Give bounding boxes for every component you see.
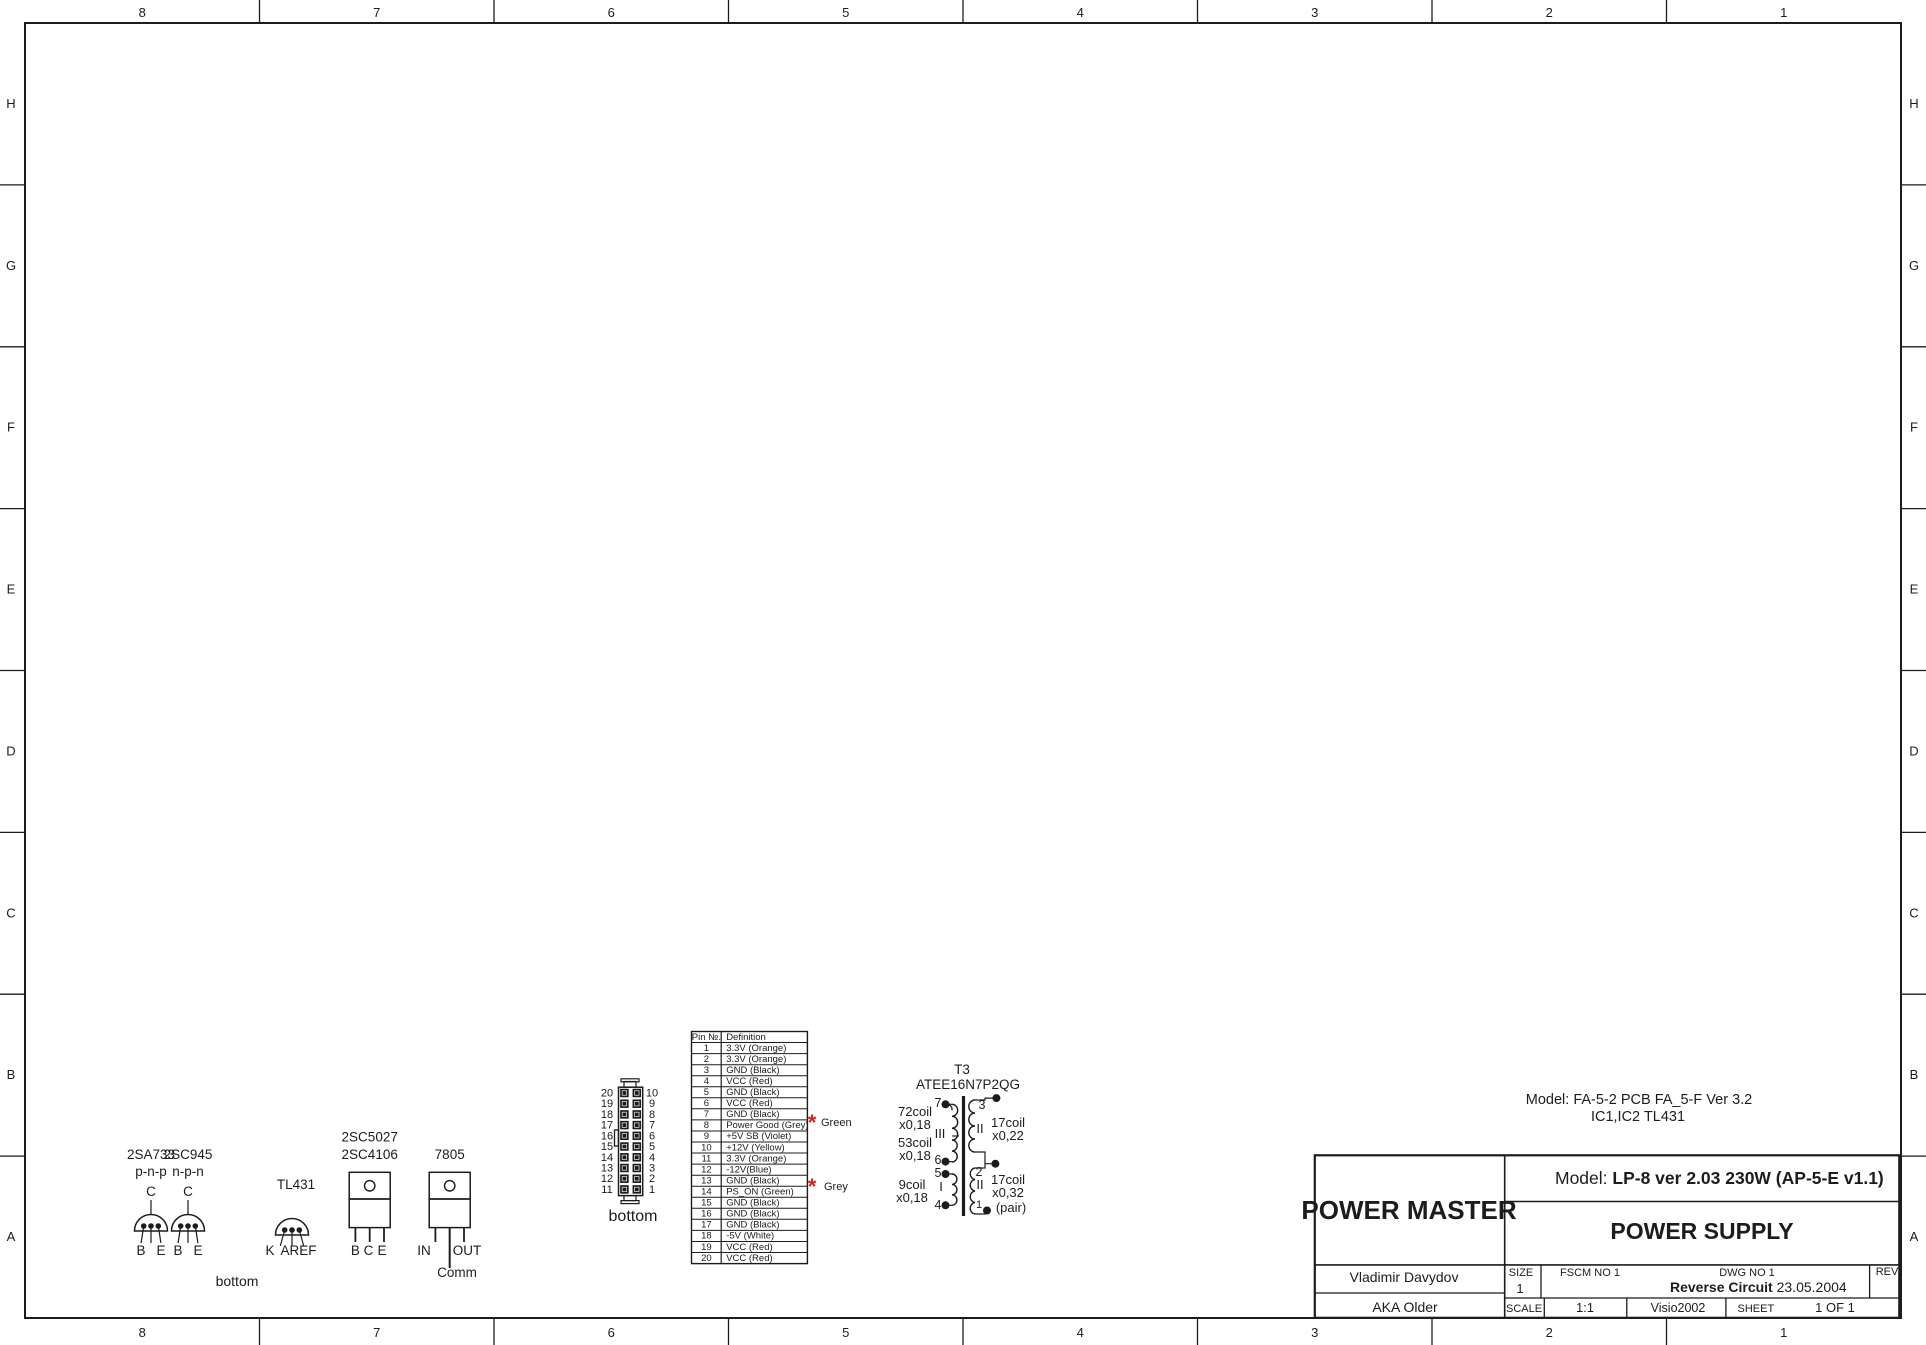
svg-text:SIZE: SIZE xyxy=(1509,1267,1533,1279)
svg-text:1: 1 xyxy=(1780,5,1787,20)
svg-text:6: 6 xyxy=(608,1325,615,1340)
svg-text:2SC945: 2SC945 xyxy=(164,1147,213,1162)
svg-text:REF: REF xyxy=(290,1243,317,1258)
svg-text:DWG NO 1: DWG NO 1 xyxy=(1719,1267,1775,1279)
svg-text:FSCM NO 1: FSCM NO 1 xyxy=(1560,1267,1620,1279)
svg-text:GND (Black): GND (Black) xyxy=(726,1176,779,1187)
svg-text:6: 6 xyxy=(704,1098,709,1109)
svg-text:Visio2002: Visio2002 xyxy=(1651,1301,1706,1315)
svg-text:IC1,IC2 TL431: IC1,IC2 TL431 xyxy=(1591,1109,1685,1125)
svg-text:1: 1 xyxy=(1780,1325,1787,1340)
svg-text:19: 19 xyxy=(701,1242,712,1253)
svg-text:B: B xyxy=(1910,1067,1919,1082)
svg-text:-12V(Blue): -12V(Blue) xyxy=(726,1164,771,1175)
svg-text:7805: 7805 xyxy=(435,1147,465,1162)
svg-text:C: C xyxy=(1909,905,1918,920)
svg-text:POWER MASTER: POWER MASTER xyxy=(1301,1195,1516,1225)
svg-text:GND (Black): GND (Black) xyxy=(726,1198,779,1209)
svg-text:Reverse Circuit 23.05.2004: Reverse Circuit 23.05.2004 xyxy=(1670,1279,1847,1295)
svg-text:1: 1 xyxy=(649,1184,655,1196)
svg-text:+12V (Yellow): +12V (Yellow) xyxy=(726,1142,785,1153)
svg-text:p-n-p: p-n-p xyxy=(135,1164,167,1179)
svg-text:3.3V (Orange): 3.3V (Orange) xyxy=(726,1054,786,1065)
svg-text:*: * xyxy=(808,1110,817,1135)
svg-text:13: 13 xyxy=(701,1176,712,1187)
svg-text:12: 12 xyxy=(701,1164,712,1175)
svg-text:C: C xyxy=(364,1243,374,1258)
svg-text:Vladimir Davydov: Vladimir Davydov xyxy=(1350,1269,1459,1285)
svg-text:E: E xyxy=(1910,582,1919,597)
svg-text:11: 11 xyxy=(601,1184,612,1196)
svg-text:SHEET: SHEET xyxy=(1738,1303,1775,1315)
svg-text:D: D xyxy=(6,743,15,758)
svg-text:8: 8 xyxy=(704,1120,709,1131)
svg-text:1: 1 xyxy=(704,1043,709,1054)
svg-text:D: D xyxy=(1909,743,1918,758)
svg-text:H: H xyxy=(1909,96,1918,111)
svg-text:VCC (Red): VCC (Red) xyxy=(726,1098,772,1109)
svg-text:3.3V (Orange): 3.3V (Orange) xyxy=(726,1153,786,1164)
svg-text:2: 2 xyxy=(1546,1325,1553,1340)
svg-text:2: 2 xyxy=(1546,5,1553,20)
svg-text:4: 4 xyxy=(1077,5,1084,20)
svg-text:Green: Green xyxy=(821,1117,852,1129)
svg-text:Definition: Definition xyxy=(726,1032,766,1043)
svg-text:9: 9 xyxy=(704,1131,709,1142)
svg-text:2: 2 xyxy=(704,1054,709,1065)
svg-text:3.3V (Orange): 3.3V (Orange) xyxy=(726,1043,786,1054)
svg-text:B: B xyxy=(136,1243,145,1258)
svg-text:VCC (Red): VCC (Red) xyxy=(726,1242,772,1253)
svg-text:C: C xyxy=(146,1184,156,1199)
svg-text:AKA Older: AKA Older xyxy=(1372,1299,1438,1315)
svg-text:4: 4 xyxy=(704,1076,709,1087)
svg-text:17: 17 xyxy=(701,1220,712,1231)
svg-text:14: 14 xyxy=(701,1187,712,1198)
svg-text:B: B xyxy=(351,1243,360,1258)
svg-text:x0,22: x0,22 xyxy=(992,1128,1024,1143)
svg-text:*: * xyxy=(808,1174,817,1199)
svg-text:E: E xyxy=(377,1243,386,1258)
svg-text:2SC5027: 2SC5027 xyxy=(342,1130,398,1145)
svg-text:11: 11 xyxy=(701,1153,711,1164)
svg-text:3: 3 xyxy=(704,1065,709,1076)
svg-text:8: 8 xyxy=(139,5,146,20)
svg-text:Model: LP-8 ver 2.03 230W (AP-: Model: LP-8 ver 2.03 230W (AP-5-E v1.1) xyxy=(1555,1168,1884,1188)
svg-text:20: 20 xyxy=(701,1253,712,1264)
svg-text:x0,18: x0,18 xyxy=(896,1190,928,1205)
svg-text:x0,18: x0,18 xyxy=(899,1148,931,1163)
svg-text:II: II xyxy=(976,1121,983,1136)
svg-text:8: 8 xyxy=(139,1325,146,1340)
svg-text:3: 3 xyxy=(1311,5,1318,20)
svg-text:E: E xyxy=(156,1243,165,1258)
svg-text:(pair): (pair) xyxy=(996,1200,1026,1215)
svg-text:Model: FA-5-2 PCB FA_5-F Ver 3: Model: FA-5-2 PCB FA_5-F Ver 3.2 xyxy=(1526,1092,1752,1108)
svg-text:GND (Black): GND (Black) xyxy=(726,1220,779,1231)
svg-text:VCC (Red): VCC (Red) xyxy=(726,1253,772,1264)
svg-text:3: 3 xyxy=(979,1098,986,1112)
svg-text:5: 5 xyxy=(704,1087,709,1098)
svg-text:A: A xyxy=(7,1229,16,1244)
svg-text:15: 15 xyxy=(701,1198,712,1209)
svg-text:6: 6 xyxy=(935,1153,942,1167)
svg-text:-5V (White): -5V (White) xyxy=(726,1231,774,1242)
svg-text:I: I xyxy=(939,1179,943,1194)
svg-text:bottom: bottom xyxy=(609,1208,658,1225)
svg-text:4: 4 xyxy=(935,1198,942,1212)
svg-text:E: E xyxy=(193,1243,202,1258)
svg-text:K: K xyxy=(265,1243,274,1258)
svg-text:ATEE16N7P2QG: ATEE16N7P2QG xyxy=(916,1077,1020,1092)
svg-text:1 OF 1: 1 OF 1 xyxy=(1815,1300,1855,1315)
svg-text:II: II xyxy=(976,1177,983,1192)
svg-text:7: 7 xyxy=(373,5,380,20)
svg-text:H: H xyxy=(6,96,15,111)
svg-text:18: 18 xyxy=(701,1231,712,1242)
svg-text:5: 5 xyxy=(935,1166,942,1180)
svg-text:A: A xyxy=(280,1243,289,1258)
svg-text:5: 5 xyxy=(842,1325,849,1340)
svg-text:7: 7 xyxy=(935,1096,942,1110)
svg-text:SCALE: SCALE xyxy=(1506,1303,1542,1315)
svg-text:F: F xyxy=(7,420,15,435)
svg-text:C: C xyxy=(183,1184,193,1199)
svg-text:E: E xyxy=(7,582,16,597)
svg-text:F: F xyxy=(1910,420,1918,435)
svg-text:GND (Black): GND (Black) xyxy=(726,1109,779,1120)
svg-text:VCC (Red): VCC (Red) xyxy=(726,1076,772,1087)
svg-text:4: 4 xyxy=(1077,1325,1084,1340)
svg-text:Grey: Grey xyxy=(824,1181,848,1193)
svg-text:G: G xyxy=(6,258,16,273)
svg-text:B: B xyxy=(7,1067,16,1082)
svg-text:n-p-n: n-p-n xyxy=(172,1164,204,1179)
svg-text:7: 7 xyxy=(373,1325,380,1340)
svg-text:REV: REV xyxy=(1876,1266,1899,1278)
svg-text:1: 1 xyxy=(1516,1281,1523,1296)
svg-text:T3: T3 xyxy=(954,1062,970,1077)
svg-text:B: B xyxy=(173,1243,182,1258)
svg-text:GND (Black): GND (Black) xyxy=(726,1065,779,1076)
svg-text:3: 3 xyxy=(1311,1325,1318,1340)
svg-text:TL431: TL431 xyxy=(277,1177,315,1192)
svg-text:x0,32: x0,32 xyxy=(992,1185,1024,1200)
svg-text:1:1: 1:1 xyxy=(1576,1300,1594,1315)
svg-text:PS_ON (Green): PS_ON (Green) xyxy=(726,1187,794,1198)
svg-text:2SC4106: 2SC4106 xyxy=(342,1147,398,1162)
svg-text:x0,18: x0,18 xyxy=(899,1117,931,1132)
svg-text:POWER SUPPLY: POWER SUPPLY xyxy=(1610,1218,1793,1244)
svg-text:5: 5 xyxy=(842,5,849,20)
svg-text:16: 16 xyxy=(701,1209,712,1220)
svg-text:GND (Black): GND (Black) xyxy=(726,1087,779,1098)
svg-text:7: 7 xyxy=(704,1109,709,1120)
svg-text:OUT: OUT xyxy=(453,1243,482,1258)
svg-text:Comm: Comm xyxy=(437,1265,477,1280)
svg-text:Pin №.: Pin №. xyxy=(692,1032,721,1043)
svg-text:III: III xyxy=(935,1126,946,1141)
svg-text:C: C xyxy=(6,905,15,920)
svg-text:6: 6 xyxy=(608,5,615,20)
svg-text:GND (Black): GND (Black) xyxy=(726,1209,779,1220)
svg-text:A: A xyxy=(1910,1229,1919,1244)
svg-text:+5V SB (Violet): +5V SB (Violet) xyxy=(726,1131,791,1142)
svg-text:1: 1 xyxy=(976,1199,982,1211)
svg-text:IN: IN xyxy=(417,1243,431,1258)
svg-text:10: 10 xyxy=(701,1142,712,1153)
svg-text:G: G xyxy=(1909,258,1919,273)
svg-text:Power Good (Grey): Power Good (Grey) xyxy=(726,1120,808,1131)
svg-text:bottom: bottom xyxy=(216,1273,259,1289)
